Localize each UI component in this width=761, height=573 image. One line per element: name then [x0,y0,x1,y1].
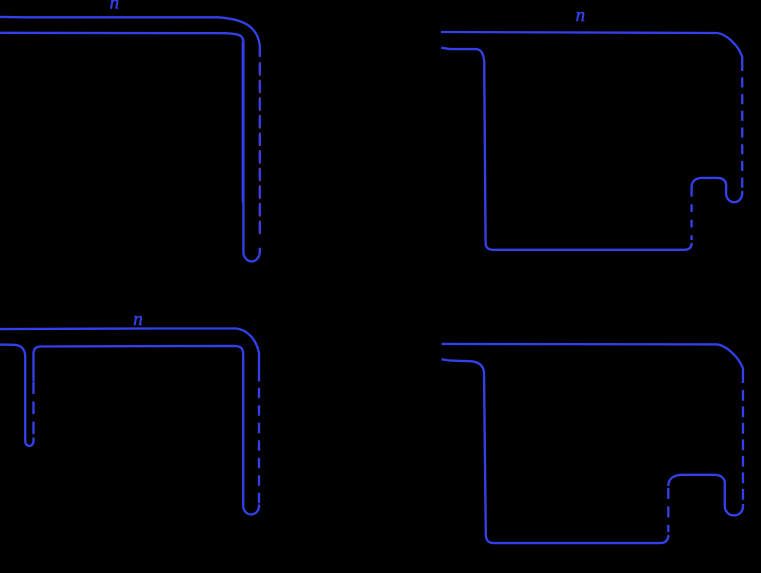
svg-text:n: n [110,0,120,14]
svg-text:n: n [576,5,586,26]
svg-text:n: n [133,309,143,330]
